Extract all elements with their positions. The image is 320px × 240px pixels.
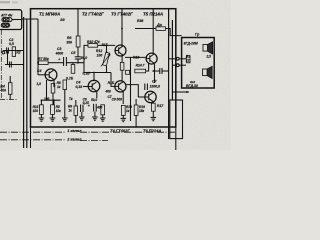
wire T2 emitter to R16 — [121, 55, 123, 62]
right bus wire 2 — [171, 20, 173, 100]
input attenuator box — [0, 10, 22, 30]
connector terminal 1 — [176, 57, 179, 60]
transistor T4 — [88, 80, 100, 92]
wire T6 base — [138, 96, 145, 98]
wire T4 base — [83, 86, 89, 88]
loudspeaker Gr2 — [203, 66, 213, 78]
transistor T5 — [115, 81, 126, 92]
wire cluster link — [7, 51, 9, 65]
bottom rail resistor R21 — [101, 105, 105, 115]
test point square — [126, 70, 130, 74]
resistor R4 — [8, 83, 12, 95]
wire C3 left — [48, 62, 64, 64]
bottom rail resistor R5 — [51, 105, 55, 115]
loudspeaker Gr1 — [203, 42, 213, 54]
wire R4 bottom — [9, 94, 11, 99]
wire T1 base vertical — [37, 19, 39, 75]
wire R12 top — [106, 45, 108, 53]
main amplifier board box — [31, 9, 176, 127]
bottom rail resistor R19 — [134, 105, 138, 115]
channel boundary chain line left — [0, 30, 2, 100]
transistor T3 — [146, 53, 157, 64]
wire T4 collector up — [93, 73, 95, 82]
resistor R8 — [63, 80, 67, 90]
wire below speaker box — [173, 91, 189, 93]
ground R13 — [39, 114, 45, 121]
main box left edge extension wire — [30, 127, 32, 148]
wire node up left — [46, 80, 48, 100]
smudge crop artifact — [0, 1, 18, 3]
wire T2 collector to rail — [121, 9, 123, 46]
wire choke to speaker box — [165, 29, 181, 36]
channel 1 chain line — [0, 131, 176, 133]
speaker unit box — [182, 38, 215, 89]
capacitor C5 — [75, 57, 81, 62]
resistor R1 speaker box — [187, 56, 190, 63]
ground C8 — [79, 112, 85, 120]
capacitor C6 electrolytic — [94, 104, 97, 112]
wire R6 top to rail — [77, 9, 79, 36]
capacitor C2 cluster wires — [3, 50, 24, 52]
wire T1 base — [38, 74, 45, 76]
ground C6 — [92, 112, 98, 121]
left supply bus wire 2 — [26, 19, 28, 148]
resistor R15 — [51, 84, 55, 94]
resistor R6 — [76, 36, 80, 47]
connector terminal 2 — [176, 64, 179, 67]
wire R10 left lead — [84, 45, 88, 72]
choke Dr feed wire — [135, 28, 156, 30]
wire C3 right — [66, 62, 84, 64]
bottom-right small box — [170, 100, 183, 139]
wire R5b — [72, 63, 74, 65]
capacitor C10 electrolytic — [145, 84, 148, 91]
attenuator element 2 — [1, 23, 9, 27]
wire R16 to T5 collector — [121, 70, 123, 81]
resistor R10 — [88, 44, 98, 48]
wire R9 down — [75, 115, 77, 123]
R12 wiper arrow — [101, 54, 110, 67]
choke Dr — [156, 27, 165, 31]
channel boundary chain line horizontal — [0, 99, 18, 101]
capacitor C7 — [155, 68, 169, 74]
speaker feed wire 2b — [179, 64, 186, 66]
wire R12 down — [106, 66, 108, 73]
wire R19 up — [135, 99, 137, 105]
speaker feed wire 2 — [172, 64, 176, 66]
resistor R7 — [39, 61, 49, 65]
wire T3 collector to rail — [152, 9, 154, 54]
potentiometer R12 — [103, 52, 110, 66]
wire R9 up — [75, 100, 77, 106]
wire lower left cluster — [5, 64, 24, 66]
wire R19 down — [135, 115, 137, 127]
ground R21 — [100, 115, 106, 122]
attenuator element 1 — [2, 18, 12, 22]
ground R5 — [50, 114, 56, 121]
transistor T1 — [45, 69, 57, 81]
ground R8 — [62, 114, 68, 121]
channel 2 chain line — [0, 139, 108, 142]
resistor R2 — [12, 47, 15, 57]
node terminal — [2, 51, 5, 54]
right edge extension wire — [175, 127, 177, 150]
wire above R13/R5 — [41, 100, 60, 105]
resistor R14 — [135, 69, 146, 73]
ground R18 — [121, 115, 127, 121]
wire T4 emitter down — [96, 91, 98, 98]
wire T5 to T6 base — [126, 85, 138, 97]
capacitor C3 electrolytic series — [64, 57, 67, 66]
input wire to board — [12, 19, 22, 21]
bottom rail resistor R18 — [121, 105, 125, 115]
wire T3 emitter down — [154, 63, 156, 83]
resistor R16 — [120, 62, 124, 70]
capacitor C2 — [7, 48, 9, 54]
capacitor C2a — [10, 62, 12, 68]
right bus wire 1 — [168, 9, 170, 139]
left supply bus wire 1 — [23, 17, 25, 148]
wire T1 emitter down — [53, 80, 55, 87]
wire R10 to T2 base — [98, 44, 116, 46]
transistor T6 — [145, 91, 156, 102]
resistor R5b — [71, 65, 75, 74]
resistor R17 — [151, 103, 155, 111]
wire T6 emitter to R17 — [152, 102, 154, 103]
bottom rail resistor R9 — [74, 106, 78, 115]
vertical bus mid-right — [130, 57, 132, 121]
wire R6 bottom — [77, 47, 79, 57]
wire T5 emitter — [122, 91, 124, 104]
transistor T2 — [115, 45, 126, 56]
mid horizontal wire — [84, 72, 111, 74]
speaker feed wire 1b — [179, 58, 186, 60]
scan noise overlay — [0, 0, 231, 150]
speaker feed wire 1 — [169, 58, 177, 60]
wire R15 down — [52, 93, 54, 105]
capacitor C8 — [81, 105, 83, 113]
wire attenuator to T1 base bus — [22, 18, 38, 20]
wire T2 to T3 base — [125, 56, 146, 58]
junction dot — [186, 91, 188, 93]
wire R8 down — [64, 90, 66, 115]
junction dots — [37, 28, 154, 101]
wire R14 to T3 base — [146, 64, 149, 72]
wire to T5 base — [111, 73, 115, 87]
ground R17/T6 — [151, 111, 157, 121]
bottom rail resistor R13 — [40, 105, 44, 115]
wire R4 top — [9, 76, 11, 83]
